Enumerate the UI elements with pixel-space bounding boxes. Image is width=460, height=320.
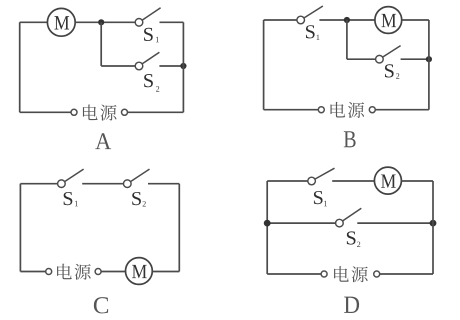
wire: A S1 to right rail	[160, 21, 184, 23]
junction node (circuit B, right)	[426, 56, 432, 62]
wire: C top to S1	[20, 183, 58, 185]
wire: B S1 to junction to motor	[319, 19, 375, 21]
wire: C left vertical	[19, 184, 21, 272]
power source 电源 (circuit B)	[318, 102, 375, 118]
wire: A bottom right	[127, 111, 183, 113]
switch S1 (circuit A)	[135, 8, 160, 26]
junction node (circuit B, top)	[344, 17, 350, 23]
wire: B branch from junction down	[346, 20, 348, 59]
power source 电源 (circuit A)	[71, 104, 128, 120]
wire: B S2 to right junction	[401, 58, 429, 60]
switch S2 (circuit B)	[376, 46, 401, 63]
wire: B branch to S2	[347, 58, 376, 60]
wire: A S2 to right junction	[159, 65, 183, 67]
power source 电源 (circuit D)	[321, 266, 380, 282]
wire: A top, left rail to motor	[20, 21, 48, 23]
wire: C motor to right rail	[152, 271, 179, 273]
junction node (circuit D, right)	[430, 220, 437, 227]
label S2 (circuit A)	[144, 74, 159, 92]
switch S2 (circuit C)	[124, 169, 150, 187]
wire: B motor to right rail	[402, 19, 429, 21]
wire: C bottom left	[20, 271, 45, 273]
wire: A right vertical	[182, 22, 184, 112]
wire: A branch from junction down	[100, 22, 102, 66]
wire: A branch to S2	[101, 65, 135, 67]
wire: D middle branch right	[357, 222, 433, 224]
wire: B bottom left	[264, 109, 319, 111]
wire: B right vertical	[428, 20, 430, 110]
wire: B top to S1	[264, 19, 298, 21]
label S2 (circuit C)	[132, 192, 146, 207]
motor M (circuit B)	[375, 7, 402, 34]
label C	[94, 297, 108, 313]
label S2 (circuit B)	[385, 64, 399, 78]
motor M (circuit A)	[47, 8, 75, 36]
switch S1 (circuit C)	[58, 169, 84, 187]
label S1 (circuit C)	[64, 192, 78, 206]
wire: D top to S1	[267, 180, 308, 182]
switch S2 (circuit A)	[135, 52, 159, 70]
junction node (circuit A, top)	[98, 19, 104, 25]
wire: C right vertical	[178, 184, 180, 272]
switch S1 (circuit B)	[297, 6, 323, 24]
power source 电源 (circuit C)	[46, 264, 101, 280]
junction node (circuit A, right)	[180, 63, 186, 69]
label A	[95, 133, 111, 149]
wire: D middle branch left	[267, 222, 336, 224]
wire: C battery to motor	[101, 271, 125, 273]
label S2 (circuit D)	[347, 231, 360, 247]
wire: D left vertical	[266, 181, 268, 274]
wire: D right vertical	[432, 181, 434, 274]
wire: B bottom right	[375, 109, 429, 111]
wire: A motor to junction to S1	[75, 21, 135, 23]
switch S2 (circuit D)	[336, 208, 362, 227]
motor M (circuit C)	[125, 258, 152, 285]
wire: A left vertical	[19, 22, 21, 112]
wire: C S2 to right rail	[148, 183, 179, 185]
label S1 (circuit A)	[144, 28, 159, 42]
wire: B left vertical	[263, 20, 265, 110]
wire: D motor to right rail	[401, 180, 433, 182]
label B	[344, 131, 356, 147]
wire: D S1 to motor	[332, 180, 374, 182]
label S1 (circuit B)	[306, 25, 319, 40]
wire: C S1 to S2	[82, 183, 124, 185]
junction node (circuit D, left)	[264, 220, 271, 227]
wire: D bottom right	[380, 273, 433, 275]
switch S1 (circuit D)	[308, 168, 335, 185]
wire: A bottom left	[20, 111, 71, 113]
label S1 (circuit D)	[314, 191, 327, 206]
wire: D bottom left	[267, 273, 321, 275]
motor M (circuit D)	[374, 167, 401, 194]
label D	[344, 297, 359, 313]
